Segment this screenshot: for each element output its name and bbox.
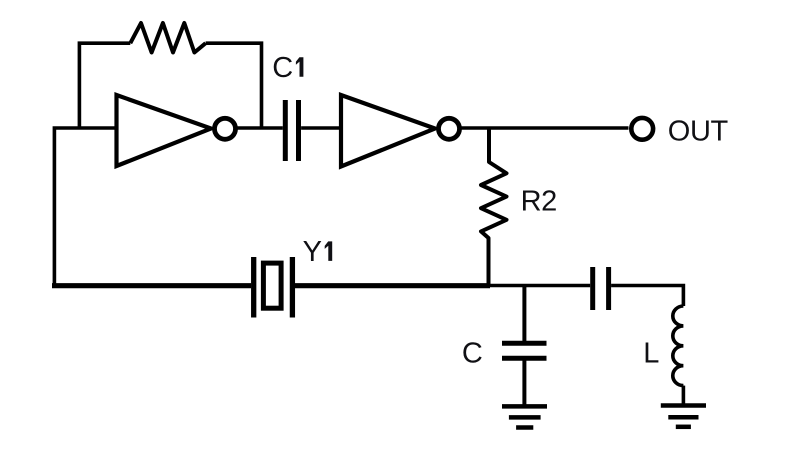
svg-text:R2: R2 <box>521 185 557 217</box>
svg-text:OUT: OUT <box>668 115 729 147</box>
svg-text:L: L <box>643 337 659 369</box>
svg-text:C: C <box>462 337 483 369</box>
svg-text:Y: Y <box>303 236 322 268</box>
svg-text:C: C <box>272 52 293 84</box>
